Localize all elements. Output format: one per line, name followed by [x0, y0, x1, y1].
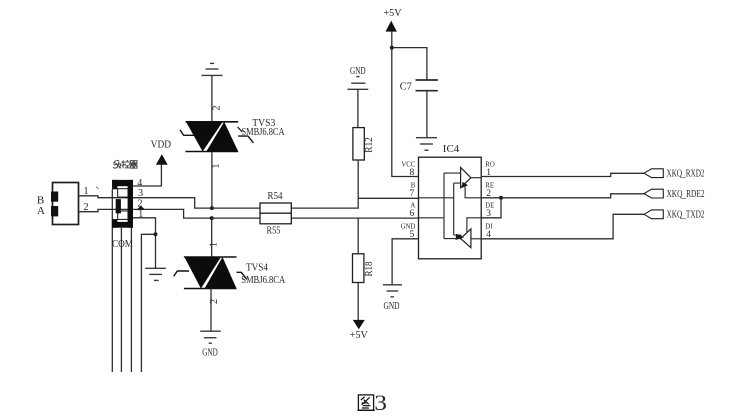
svg-text:7: 7 — [410, 189, 415, 199]
ground under C7 — [416, 138, 437, 151]
power +5V top arrow — [386, 21, 397, 32]
connector P1 pad A — [51, 206, 58, 216]
svg-text:3: 3 — [374, 390, 387, 415]
svg-text:XKQ_TXD2: XKQ_TXD2 — [667, 210, 705, 221]
wire R18 top to net A — [357, 218, 359, 254]
IC4 box — [419, 157, 482, 259]
svg-text:2: 2 — [211, 106, 222, 111]
TVS diode TVS3 — [180, 122, 253, 152]
resistor R55 — [260, 213, 291, 224]
svg-text:R18: R18 — [364, 262, 375, 277]
wire COM branch left down — [141, 234, 155, 372]
IC internal: B path vertical — [419, 183, 462, 235]
svg-text:6: 6 — [410, 209, 415, 219]
connector P1 pad B — [51, 192, 58, 202]
svg-text:SMBJ6.8CA: SMBJ6.8CA — [242, 127, 286, 138]
tag XKQ_RDE2 — [644, 189, 663, 198]
small stray tick — [96, 187, 99, 189]
junction +5V — [390, 46, 394, 50]
svg-text:XKQ_RDE2: XKQ_RDE2 — [667, 189, 705, 200]
connector P1 body — [53, 183, 79, 225]
svg-text:IC4: IC4 — [443, 144, 460, 155]
IC internal receiver triangle — [461, 168, 471, 188]
svg-text:SMBJ6.8CA: SMBJ6.8CA — [241, 275, 286, 286]
svg-text:1: 1 — [138, 209, 143, 220]
IC internal driver triangle — [461, 229, 471, 248]
resistor R12 — [353, 128, 364, 160]
svg-text:R12: R12 — [364, 137, 375, 153]
wire R18 to +5V — [357, 283, 359, 321]
IC internal DE enable — [467, 218, 481, 233]
arrow mark at block pin2 — [137, 206, 145, 211]
svg-text:1: 1 — [209, 242, 220, 247]
svg-text:VDD: VDD — [151, 139, 172, 151]
tag XKQ_TXD2 — [644, 210, 663, 219]
wire VDD from block pin4 — [133, 165, 161, 187]
wire RE to tag — [481, 194, 644, 198]
IC internal driver input — [471, 238, 481, 240]
svg-text:GND: GND — [350, 66, 366, 77]
junction RE-DE — [499, 196, 503, 200]
svg-text:1: 1 — [211, 164, 222, 169]
wire net B: P1 pin1 to XKQ block pin3 to R54 to IC pin7 — [79, 196, 261, 208]
svg-text:+5V: +5V — [384, 8, 402, 19]
caption 图 (drawn) — [357, 395, 374, 411]
wire +5V down to IC pin8 — [392, 32, 419, 177]
svg-text:TVS4: TVS4 — [246, 263, 268, 274]
svg-text:+5V: +5V — [350, 330, 368, 341]
wire DI to tag — [481, 214, 644, 239]
wire DE to RE — [481, 198, 501, 218]
ground under TVS4 — [200, 331, 221, 343]
wire hanging line 1 — [111, 189, 113, 372]
label 线控器 (drawn strokes) — [113, 160, 137, 168]
wire RO to tag — [481, 173, 644, 176]
TVS diode TVS4 — [174, 257, 247, 289]
tag XKQ_RXD2 — [644, 169, 663, 178]
svg-text:A: A — [37, 205, 45, 217]
wire net A right: R55 to IC4 pin6 — [291, 217, 418, 219]
wire net B right: R54 to jog up to IC4 pin7 — [291, 198, 418, 208]
wire net A to TVS4 — [211, 218, 213, 257]
junction TVS4-A — [210, 216, 214, 220]
svg-text:XKQ_RXD2: XKQ_RXD2 — [667, 169, 705, 180]
svg-text:GND: GND — [384, 301, 400, 312]
XKQ connector block (线控器) — [112, 180, 133, 228]
wire hanging line 2 — [120, 228, 122, 372]
capacitor C7 — [416, 80, 438, 91]
wire C7 to ground — [426, 91, 428, 138]
wire COM: block pin1 right then down to ground — [133, 218, 156, 268]
svg-text:R54: R54 — [268, 191, 284, 202]
wire ground to R12 — [357, 89, 359, 127]
IC internal RE enable — [465, 187, 481, 198]
svg-text:R55: R55 — [267, 226, 281, 237]
ground under COM wire — [145, 268, 166, 280]
power VDD arrow — [156, 154, 168, 165]
wire ground to TVS3 — [211, 75, 213, 121]
svg-text:C7: C7 — [400, 82, 412, 93]
inverted ground above TVS3 — [202, 63, 223, 75]
wire TVS4 to ground — [210, 289, 212, 332]
inverted ground above R12 — [347, 77, 368, 90]
wire hanging line 3 — [130, 228, 132, 372]
svg-text:COM: COM — [112, 239, 134, 250]
resistor R18 — [353, 254, 364, 283]
ground under pin5 — [383, 285, 402, 297]
wire R12 to net B — [357, 160, 359, 198]
IC internal RE inverting mark — [462, 182, 468, 188]
IC internal driver inverting mark — [456, 234, 465, 240]
IC internal: A path vertical — [419, 173, 461, 239]
IC internal receiver output — [471, 177, 481, 179]
svg-text:8: 8 — [410, 168, 415, 178]
wire GND pin5 — [392, 239, 418, 285]
svg-text:2: 2 — [138, 199, 143, 210]
junction TVS3-B — [210, 206, 214, 210]
wire net A: P1 pin2 through block pin2 down to R55 — [79, 209, 261, 218]
power +5V bottom arrow — [353, 320, 365, 329]
svg-text:GND: GND — [202, 347, 218, 358]
wire branch to C7 — [392, 48, 427, 80]
junction COM — [154, 232, 158, 236]
wire TVS3 to net B — [211, 152, 213, 209]
resistor R54 — [260, 203, 291, 213]
